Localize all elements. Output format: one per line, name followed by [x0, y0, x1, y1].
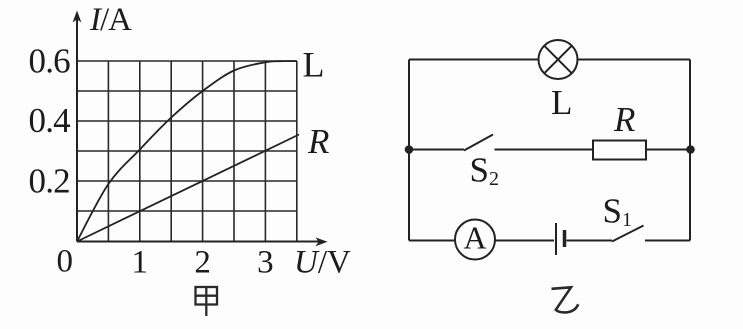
svg-text:3: 3 [257, 245, 274, 281]
svg-text:I/A: I/A [89, 2, 132, 38]
svg-text:U/V: U/V [294, 244, 351, 280]
svg-text:L: L [551, 83, 572, 122]
svg-text:2: 2 [194, 245, 211, 281]
svg-text:R: R [307, 122, 329, 161]
svg-text:0.4: 0.4 [29, 101, 71, 140]
svg-text:0.6: 0.6 [29, 42, 71, 81]
svg-text:R: R [613, 100, 635, 139]
svg-text:1: 1 [132, 245, 149, 281]
svg-text:0.2: 0.2 [29, 162, 70, 201]
svg-text:L: L [303, 45, 325, 85]
svg-text:A: A [463, 220, 486, 256]
svg-text:0: 0 [57, 244, 74, 280]
